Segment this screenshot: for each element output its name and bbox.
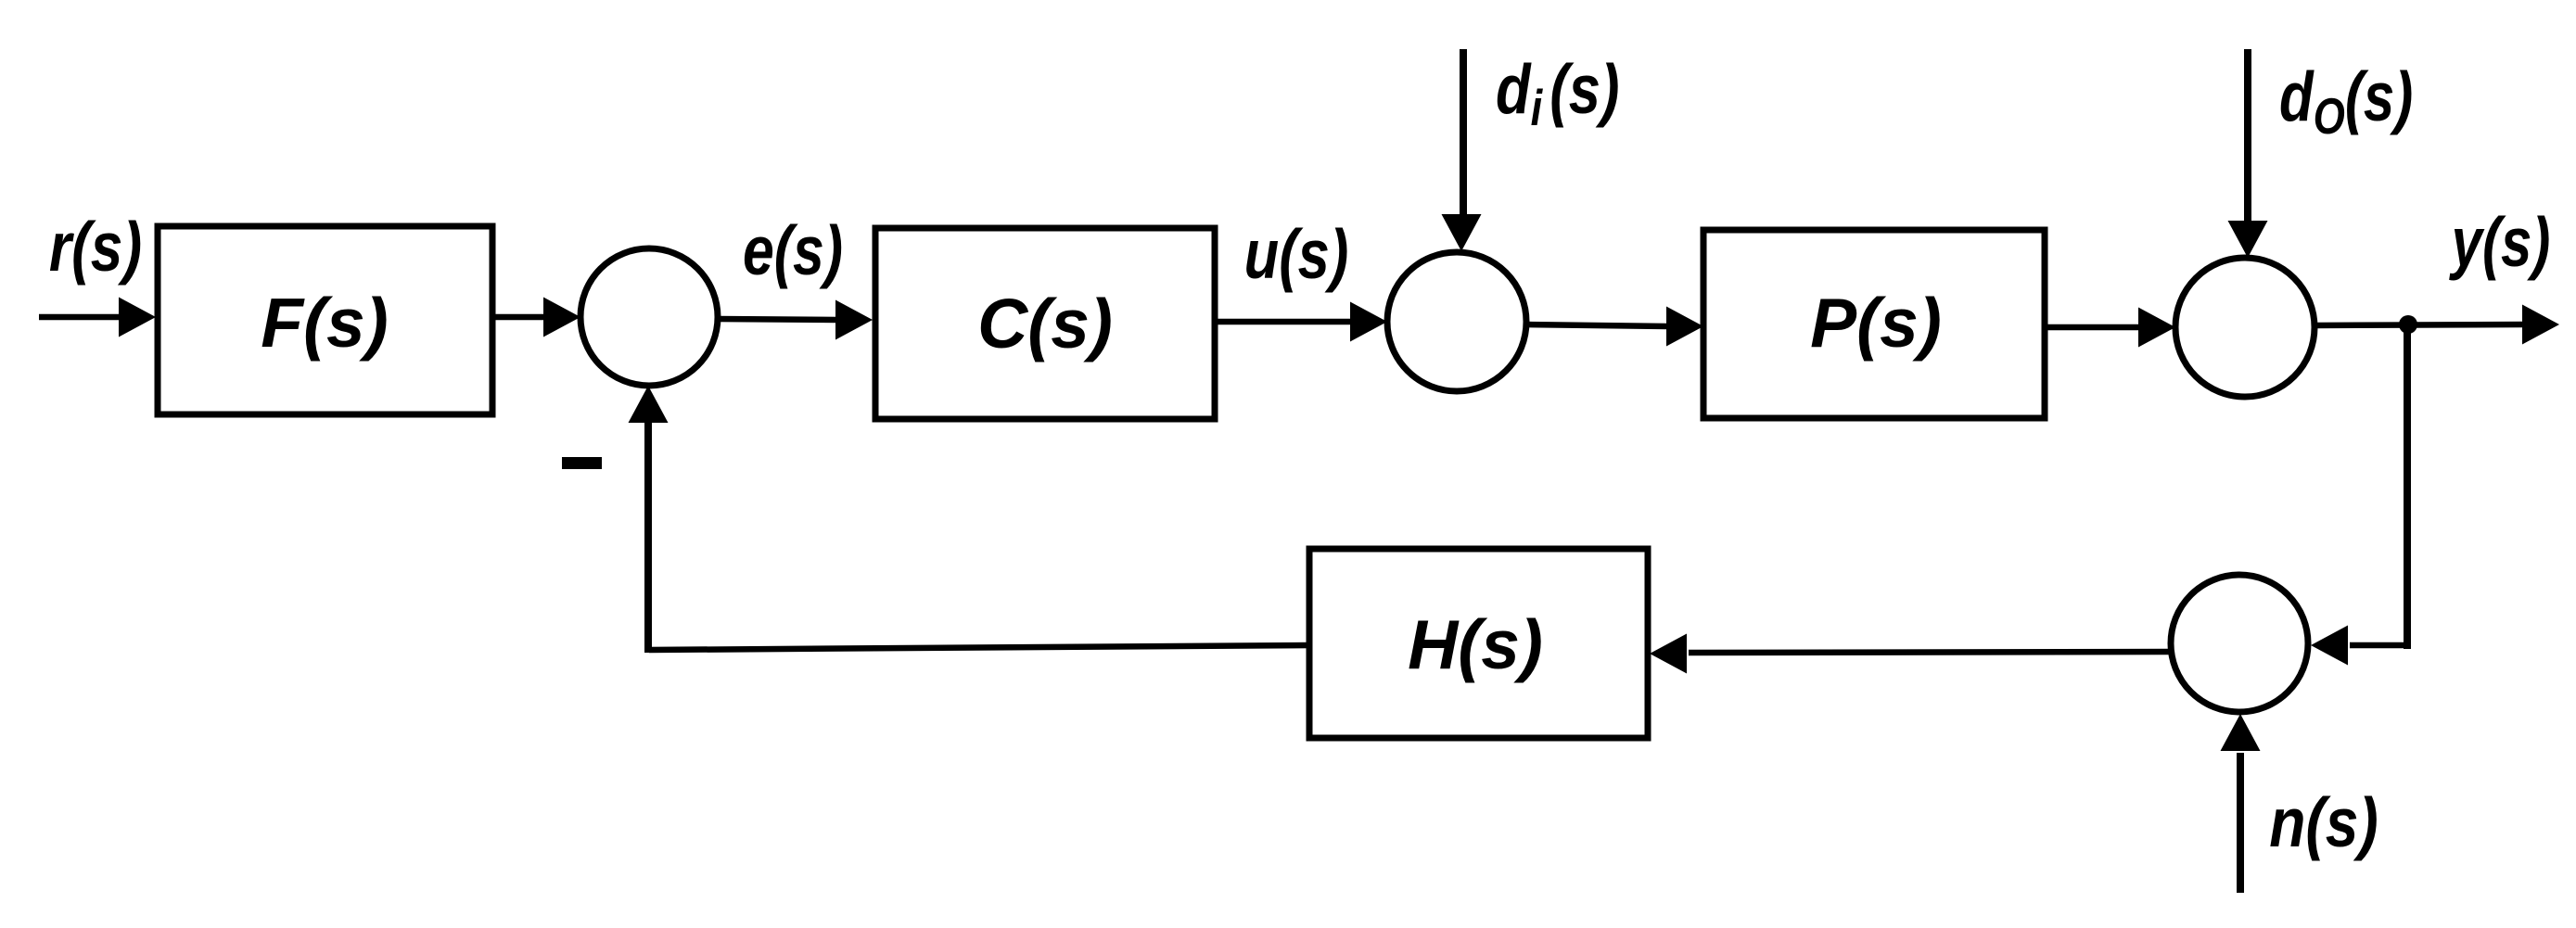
svg-text:di(s): di(s) [1496, 50, 1619, 136]
svg-text:e(s): e(s) [743, 212, 843, 290]
wire output y(s) with arrowhead [2315, 305, 2559, 345]
wire summing junction 1 to C(s) [718, 300, 873, 340]
svg-text:P(s): P(s) [1810, 284, 1942, 362]
block P(s) [1703, 230, 2045, 418]
wire n(s) vertical arrow into summing junction 4 [2221, 714, 2261, 893]
summing junction 3 [2175, 258, 2315, 397]
wire C(s) to summing junction 2 [1215, 302, 1387, 342]
block H(s) [1309, 549, 1648, 738]
wire summing junction 2 to P(s) [1526, 307, 1703, 347]
summing junction 1 [580, 248, 718, 386]
svg-text:r(s): r(s) [49, 209, 142, 286]
wire input r(s) arrow into F(s) [39, 298, 156, 337]
svg-text:H(s): H(s) [1408, 605, 1543, 683]
svg-text:dO(s): dO(s) [2279, 59, 2413, 145]
svg-text:y(s): y(s) [2449, 205, 2550, 282]
wire d_O(s) vertical arrow into summing junction 3 [2228, 49, 2268, 258]
wire F(s) to summing junction 1 [492, 298, 580, 337]
wire d_i(s) vertical arrow into summing junction 2 [1442, 49, 1482, 251]
node output branch dot [2399, 315, 2417, 334]
summing junction 2 [1387, 252, 1526, 391]
svg-text:F(s): F(s) [261, 284, 388, 362]
svg-text:n(s): n(s) [2269, 783, 2378, 861]
block C(s) [875, 228, 1215, 419]
svg-text:C(s): C(s) [977, 285, 1113, 362]
minus sign [562, 457, 602, 469]
wire P(s) to summing junction 3 [2045, 308, 2175, 348]
summing junction 4 [2171, 575, 2308, 712]
svg-text:u(s): u(s) [1244, 215, 1349, 293]
block F(s) [158, 226, 492, 414]
wire node down and left into summing junction 4 [2311, 324, 2411, 666]
wire H(s) back to summing junction 1 feedback [629, 386, 1310, 653]
wire summing junction 4 to H(s) [1650, 634, 2171, 674]
